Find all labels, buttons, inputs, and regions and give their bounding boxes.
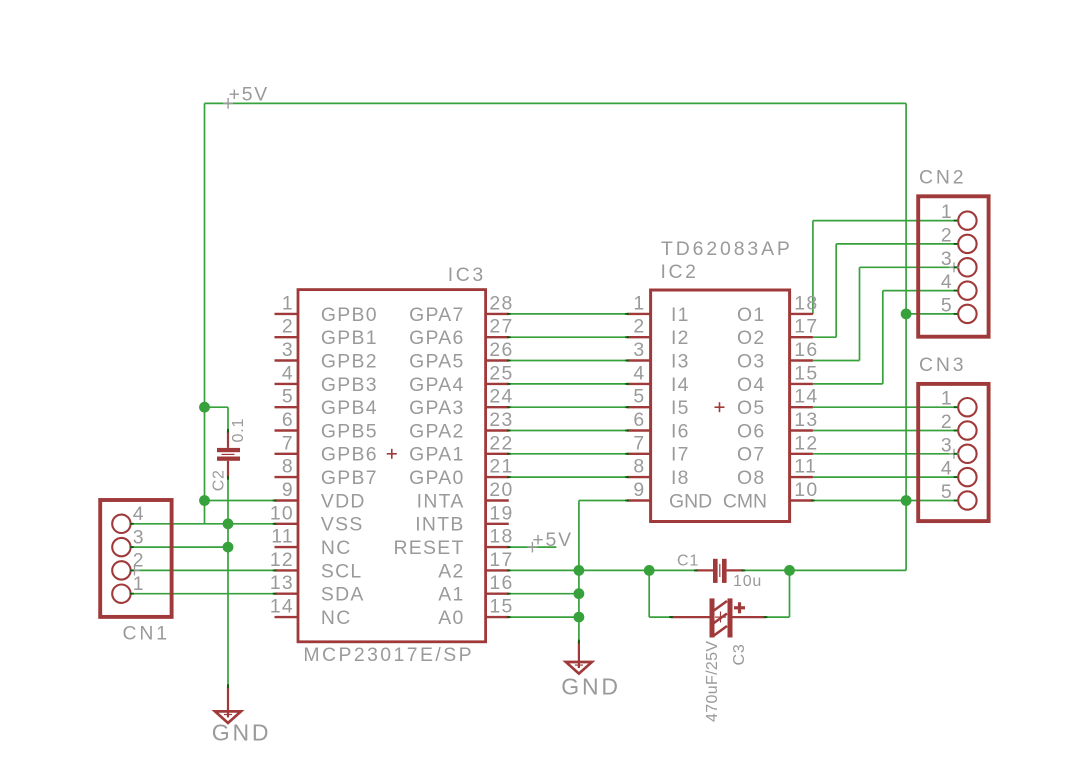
svg-text:GPA7: GPA7 <box>409 304 465 326</box>
svg-text:14: 14 <box>794 386 818 408</box>
svg-text:4: 4 <box>133 503 145 525</box>
svg-text:21: 21 <box>489 456 513 478</box>
svg-text:1: 1 <box>633 292 645 314</box>
svg-text:MCP23017E/SP: MCP23017E/SP <box>303 644 474 666</box>
svg-text:INTA: INTA <box>417 490 465 512</box>
svg-text:12: 12 <box>270 549 294 571</box>
svg-text:GPB3: GPB3 <box>321 374 378 396</box>
svg-text:7: 7 <box>633 432 645 454</box>
svg-text:O2: O2 <box>737 327 765 349</box>
svg-text:+5V: +5V <box>532 529 572 551</box>
svg-text:3: 3 <box>633 339 645 361</box>
svg-text:3: 3 <box>941 434 953 456</box>
svg-text:5: 5 <box>941 294 953 316</box>
svg-text:6: 6 <box>282 409 294 431</box>
svg-text:1: 1 <box>941 201 953 223</box>
svg-text:CN3: CN3 <box>919 354 967 376</box>
svg-text:GPA4: GPA4 <box>409 374 465 396</box>
svg-text:3: 3 <box>133 526 145 548</box>
svg-text:GPA5: GPA5 <box>409 350 465 372</box>
svg-text:20: 20 <box>489 479 513 501</box>
svg-text:8: 8 <box>282 456 294 478</box>
svg-text:2: 2 <box>941 224 953 246</box>
svg-text:2: 2 <box>941 411 953 433</box>
svg-text:4: 4 <box>941 458 953 480</box>
svg-text:27: 27 <box>489 316 513 338</box>
svg-text:0.1: 0.1 <box>230 418 247 443</box>
svg-text:CN1: CN1 <box>123 623 171 645</box>
svg-text:O4: O4 <box>737 374 765 396</box>
svg-text:470uF/25V: 470uF/25V <box>704 641 721 722</box>
svg-text:15: 15 <box>794 362 818 384</box>
svg-text:10: 10 <box>794 479 818 501</box>
svg-text:18: 18 <box>489 526 513 548</box>
svg-text:GPB6: GPB6 <box>321 444 378 466</box>
svg-text:17: 17 <box>489 549 513 571</box>
svg-text:28: 28 <box>489 292 513 314</box>
svg-text:GPB1: GPB1 <box>321 327 378 349</box>
svg-text:IC2: IC2 <box>661 261 699 283</box>
svg-text:VSS: VSS <box>321 514 364 536</box>
svg-text:GPA3: GPA3 <box>409 397 465 419</box>
svg-text:3: 3 <box>941 248 953 270</box>
svg-text:GND: GND <box>669 490 712 512</box>
svg-text:GPA6: GPA6 <box>409 327 465 349</box>
svg-text:10: 10 <box>270 502 294 524</box>
svg-text:19: 19 <box>489 502 513 524</box>
svg-text:GPA1: GPA1 <box>409 444 465 466</box>
svg-text:NC: NC <box>321 537 352 559</box>
svg-text:GPB2: GPB2 <box>321 350 378 372</box>
svg-text:17: 17 <box>794 316 818 338</box>
svg-text:11: 11 <box>271 526 294 548</box>
svg-text:26: 26 <box>489 339 513 361</box>
svg-text:1: 1 <box>941 388 953 410</box>
svg-text:5: 5 <box>941 481 953 503</box>
svg-text:I7: I7 <box>671 444 690 466</box>
svg-text:A2: A2 <box>438 560 464 582</box>
svg-text:9: 9 <box>282 479 294 501</box>
svg-text:INTB: INTB <box>415 514 464 536</box>
svg-text:CMN: CMN <box>723 490 767 512</box>
svg-text:22: 22 <box>489 432 513 454</box>
svg-text:8: 8 <box>633 456 645 478</box>
svg-text:13: 13 <box>270 572 294 594</box>
svg-text:24: 24 <box>489 386 513 408</box>
svg-text:CN2: CN2 <box>919 166 967 188</box>
svg-text:SCL: SCL <box>321 560 363 582</box>
svg-text:C3: C3 <box>731 643 748 665</box>
svg-text:5: 5 <box>282 386 294 408</box>
svg-text:O1: O1 <box>737 304 765 326</box>
svg-text:I6: I6 <box>671 420 690 442</box>
svg-text:SDA: SDA <box>321 584 365 606</box>
svg-text:11: 11 <box>794 456 817 478</box>
svg-text:GND: GND <box>561 674 621 700</box>
svg-text:A0: A0 <box>438 607 464 629</box>
svg-text:O5: O5 <box>737 397 765 419</box>
svg-text:IC3: IC3 <box>448 264 486 286</box>
svg-text:I4: I4 <box>671 374 690 396</box>
svg-text:O7: O7 <box>737 444 765 466</box>
svg-text:NC: NC <box>321 607 352 629</box>
svg-text:GPB7: GPB7 <box>321 467 378 489</box>
svg-text:16: 16 <box>489 572 513 594</box>
svg-text:4: 4 <box>282 362 294 384</box>
svg-text:GPA2: GPA2 <box>409 420 465 442</box>
svg-text:18: 18 <box>794 292 818 314</box>
svg-text:O3: O3 <box>737 350 765 372</box>
svg-text:2: 2 <box>633 316 645 338</box>
svg-text:I3: I3 <box>671 350 690 372</box>
svg-text:RESET: RESET <box>393 537 464 559</box>
svg-text:GPB0: GPB0 <box>321 304 378 326</box>
svg-text:4: 4 <box>633 362 645 384</box>
svg-text:23: 23 <box>489 409 513 431</box>
svg-text:C2: C2 <box>211 469 228 491</box>
svg-text:1: 1 <box>133 573 145 595</box>
svg-text:TD62083AP: TD62083AP <box>661 238 793 260</box>
svg-text:2: 2 <box>282 316 294 338</box>
svg-text:25: 25 <box>489 362 513 384</box>
svg-text:5: 5 <box>633 386 645 408</box>
svg-text:GPB4: GPB4 <box>321 397 378 419</box>
svg-text:4: 4 <box>941 271 953 293</box>
svg-text:14: 14 <box>270 596 294 618</box>
svg-text:VDD: VDD <box>321 490 366 512</box>
svg-text:I2: I2 <box>671 327 690 349</box>
svg-text:GND: GND <box>212 719 272 745</box>
svg-text:I1: I1 <box>671 304 690 326</box>
svg-text:A1: A1 <box>438 584 464 606</box>
svg-text:GPA0: GPA0 <box>409 467 465 489</box>
svg-text:3: 3 <box>282 339 294 361</box>
svg-text:+5V: +5V <box>229 83 269 105</box>
svg-text:I8: I8 <box>671 467 690 489</box>
svg-text:O6: O6 <box>737 420 765 442</box>
svg-text:13: 13 <box>794 409 818 431</box>
svg-text:1: 1 <box>282 292 294 314</box>
svg-text:6: 6 <box>633 409 645 431</box>
svg-text:I5: I5 <box>671 397 690 419</box>
svg-text:9: 9 <box>633 479 645 501</box>
svg-text:GPB5: GPB5 <box>321 420 378 442</box>
svg-text:7: 7 <box>282 432 294 454</box>
svg-text:15: 15 <box>489 596 513 618</box>
svg-text:O8: O8 <box>737 467 765 489</box>
svg-text:C1: C1 <box>677 553 699 570</box>
svg-text:12: 12 <box>794 432 818 454</box>
svg-text:10u: 10u <box>733 573 762 590</box>
svg-text:16: 16 <box>794 339 818 361</box>
